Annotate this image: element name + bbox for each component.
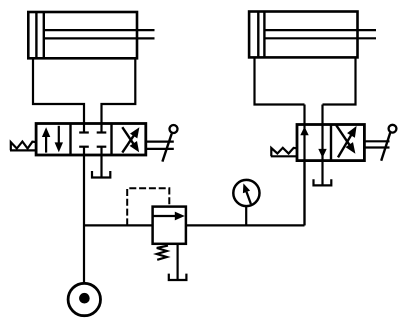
- cylinder B piston: [257, 12, 259, 58]
- wire V1 P port to pump: [83, 155, 85, 283]
- valve V1 cell2 blocked port bottom-left: [83, 147, 85, 155]
- pump source: [68, 283, 100, 315]
- cylinder B rod: [264, 29, 376, 31]
- wire main line left: [84, 224, 153, 226]
- valve V1 cell2 blocked port bottom-right: [100, 147, 102, 155]
- valve V2 down arrow head: [318, 149, 326, 158]
- valve V1 cell3 crossed arrow 1: [122, 135, 134, 152]
- wire main line right: [186, 224, 305, 226]
- valve V1 cell1 down arrow: [58, 126, 60, 143]
- valve V1 cell1 up arrow: [45, 136, 47, 152]
- cylinder A piston: [35, 12, 37, 58]
- cylinder B body: [249, 12, 357, 58]
- sequence valve body: [153, 207, 186, 244]
- tank T3: [169, 274, 187, 280]
- valve V2 lever: [364, 140, 389, 142]
- valve V1 body: [36, 124, 146, 156]
- valve V2 spring: [271, 155, 297, 157]
- sequence valve spring: [157, 246, 168, 260]
- valve V1 cell2 blocked port top-left: [83, 124, 85, 133]
- wire main line riser to V2: [303, 160, 305, 225]
- valve V2 up arrow head: [300, 127, 308, 136]
- cylinder A body: [28, 12, 137, 58]
- tank T1: [92, 171, 110, 178]
- wire V2 flow line right / tank drop: [321, 105, 323, 186]
- pressure gauge: [233, 180, 259, 206]
- valve V2 crossed arrow 1: [338, 135, 351, 158]
- valve V2 body: [297, 125, 364, 161]
- sequence valve arrow: [154, 215, 177, 217]
- valve V2 crossed arrow 2: [336, 125, 349, 145]
- wire cylinder A right port: [102, 58, 136, 123]
- valve V1 spring: [10, 149, 36, 151]
- pressure gauge stem: [245, 206, 247, 225]
- wire cylinder A left port: [33, 58, 84, 123]
- valve V1 lever: [146, 141, 174, 143]
- valve V1 cell2 blocked port top-right: [100, 124, 102, 133]
- wire cylinder B right port: [323, 57, 356, 104]
- wire cylinder B left port: [255, 57, 305, 104]
- valve V1 cell3 crossed arrow 2: [122, 127, 133, 144]
- pilot dashed line: [127, 188, 169, 225]
- tank T2: [314, 179, 332, 185]
- wire V2 flow line left: [303, 105, 305, 226]
- cylinder A rod: [44, 29, 155, 31]
- sequence valve drain line: [177, 244, 179, 280]
- wire V1 T port: [100, 155, 102, 178]
